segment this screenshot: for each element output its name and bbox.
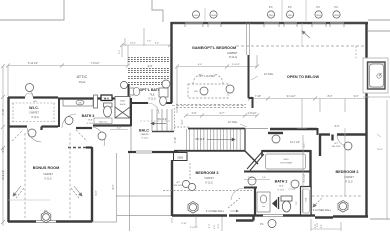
- main stair arrow: [207, 138, 235, 141]
- balc south wall: [128, 151, 178, 153]
- window label circle P.C. 2850: [333, 6, 340, 18]
- attic text: [77, 75, 88, 84]
- door label box 2668: [174, 153, 188, 161]
- bath3 text: [82, 114, 95, 125]
- svg-text:9' CLG: 9' CLG: [278, 190, 285, 192]
- windows in top wall: [185, 22, 344, 24]
- svg-text:5'-2": 5'-2": [2, 147, 5, 152]
- svg-text:5'-0": 5'-0": [317, 223, 319, 228]
- svg-text:3'-0 1/2": 3'-0 1/2": [190, 227, 198, 229]
- shower door diagonal: [247, 152, 264, 171]
- svg-text:9'-7": 9'-7": [220, 112, 225, 115]
- left vertical dimension line: [1, 64, 5, 226]
- svg-text:5'-10 1/2": 5'-10 1/2": [28, 62, 38, 65]
- bonus corner slope dashes: [12, 130, 87, 141]
- balc dashed line: [140, 120, 172, 122]
- svg-text:BEDROOM 3: BEDROOM 3: [196, 171, 219, 175]
- bedroom3 fan hexagon: [188, 202, 198, 214]
- bedroom3 text: [196, 171, 219, 185]
- svg-text:DBL DRS: DBL DRS: [332, 146, 341, 148]
- svg-text:BONUS ROOM: BONUS ROOM: [33, 166, 60, 170]
- bath3 door circle: [65, 117, 73, 125]
- balc west light line: [130, 126, 132, 151]
- svg-text:15'-8 1/2": 15'-8 1/2": [2, 170, 5, 180]
- bedroom2 dashed ceiling: [312, 195, 362, 197]
- right exterior wall: [365, 23, 367, 216]
- svg-text:DN 14 R: DN 14 R: [158, 119, 167, 121]
- svg-text:9'-0": 9'-0": [354, 95, 359, 98]
- svg-text:3'-6": 3'-6": [262, 177, 266, 179]
- svg-text:6040: 6040: [194, 15, 200, 17]
- svg-text:16'-0": 16'-0": [377, 149, 383, 151]
- svg-text:2'-10": 2'-10": [174, 137, 177, 143]
- svg-text:2668: 2668: [177, 156, 183, 160]
- game room text: [192, 46, 238, 59]
- bonus interior light line: [8, 199, 50, 201]
- svg-text:1'-6": 1'-6": [214, 225, 216, 230]
- svg-text:3'-10": 3'-10": [181, 223, 187, 225]
- svg-text:SHLF: SHLF: [120, 104, 126, 106]
- arrow in open area: [302, 31, 310, 38]
- svg-text:OPEN TO BELOW: OPEN TO BELOW: [287, 75, 320, 79]
- bath3 door arc: [62, 114, 76, 128]
- balc window: [136, 151, 152, 153]
- svg-text:7'-6": 7'-6": [147, 41, 152, 43]
- svg-text:P.C.: P.C.: [288, 6, 293, 9]
- bath3 toilet: [104, 103, 113, 117]
- svg-text:TILE: TILE: [279, 186, 284, 188]
- opt'l closet dashed: [176, 74, 246, 108]
- opt'l bath fixture circle: [120, 81, 127, 88]
- bottom dimension rows: [172, 216, 311, 231]
- bonus dashed ceiling lines: [25, 133, 70, 218]
- svg-text:9' CLG: 9' CLG: [31, 116, 39, 119]
- dashed ceiling break line: [236, 45, 366, 47]
- right dashed: [355, 46, 357, 60]
- opt'l bath door circle: [162, 80, 170, 88]
- svg-text:P.C.: P.C.: [260, 223, 265, 226]
- wic south door circle: [28, 129, 36, 137]
- bedroom3 closet dashed: [163, 163, 252, 191]
- wic west wall / bonus west wall: [7, 97, 9, 222]
- svg-text:2'-2": 2'-2": [119, 50, 121, 55]
- bath2 text: [275, 180, 288, 192]
- window label circle P.C. 2850: [267, 6, 274, 18]
- bath2 north wall: [268, 129, 317, 133]
- shower corner vline: [261, 150, 263, 156]
- stair right end: [244, 129, 246, 151]
- svg-text:6050: 6050: [120, 101, 126, 103]
- hall dashed wall: [68, 147, 92, 149]
- svg-text:TILE: TILE: [88, 120, 93, 122]
- attic hatch bands: [128, 58, 171, 85]
- svg-text:ATTIC: ATTIC: [77, 75, 88, 79]
- top wall thin continuous line: [171, 22, 368, 24]
- bedroom3 west wall: [171, 160, 173, 216]
- svg-text:DBL DRS: DBL DRS: [174, 185, 183, 187]
- bath2 bottom window circle: [260, 220, 276, 228]
- svg-text:4'-4": 4'-4": [148, 65, 153, 68]
- svg-text:9' CLG: 9' CLG: [229, 55, 237, 59]
- svg-text:9' CLG: 9' CLG: [87, 123, 94, 125]
- svg-text:2'-8 1/2": 2'-8 1/2": [248, 112, 257, 115]
- svg-text:CARPET: CARPET: [227, 51, 238, 55]
- window label circle P.C. 2850: [315, 6, 322, 18]
- bedroom3 bottom wall: [172, 216, 311, 221]
- svg-text:3'-2": 3'-2": [181, 119, 184, 124]
- svg-text:1040 CO: 1040 CO: [99, 121, 108, 123]
- svg-text:W.I.C.: W.I.C.: [29, 106, 39, 110]
- bedroom2 dim lines: [303, 135, 345, 213]
- svg-text:TILE: TILE: [149, 94, 154, 97]
- window label circle P.C. 2850: [286, 6, 293, 18]
- opt'l bath toilet: [130, 87, 140, 95]
- svg-text:9' CLG: 9' CLG: [44, 178, 52, 181]
- svg-text:OPT'L CLOSET: OPT'L CLOSET: [199, 75, 216, 78]
- bedroom3 closet circles: [182, 180, 189, 187]
- bath3 1040 CO box: [94, 118, 112, 124]
- dimension row stairs: [184, 114, 259, 118]
- bedroom3 slope arrow: [228, 198, 240, 208]
- bath3 south wall: [76, 126, 131, 129]
- svg-text:BALC: BALC: [139, 129, 149, 133]
- game room west wall: [170, 22, 172, 103]
- svg-text:P.C.: P.C.: [316, 6, 321, 9]
- svg-text:6'-0": 6'-0": [117, 128, 122, 130]
- svg-text:3'-2": 3'-2": [296, 201, 298, 205]
- svg-text:BATH 3: BATH 3: [82, 114, 95, 118]
- svg-text:2850: 2850: [288, 15, 294, 17]
- svg-text:1'-10": 1'-10": [247, 177, 252, 179]
- bonus room right wall: [91, 147, 93, 222]
- svg-text:4'-1 1/2": 4'-1 1/2": [303, 173, 306, 182]
- svg-text:2850: 2850: [334, 15, 340, 17]
- master tub right side: [363, 58, 388, 93]
- wic/bath3 divider wall: [58, 98, 60, 127]
- bonus slope arrow left: [13, 186, 24, 198]
- opt'l bath text: [139, 88, 160, 101]
- bath3 east wall: [130, 98, 132, 126]
- svg-text:BATH 2: BATH 2: [275, 180, 288, 184]
- wic shelf dashed: [12, 103, 55, 122]
- opt'l bath west wall: [128, 84, 130, 103]
- light line open to below: [301, 23, 303, 46]
- opt closet circle 2: [226, 85, 234, 93]
- svg-text:7'-10": 7'-10": [2, 109, 5, 115]
- svg-text:Plywd: Plywd: [79, 81, 86, 84]
- svg-text:CARPET: CARPET: [29, 112, 39, 115]
- svg-text:BEDROOM 2: BEDROOM 2: [336, 170, 359, 174]
- upper flight bottom edge: [152, 131, 174, 133]
- bonus bottom window: [36, 221, 56, 223]
- shower interior: [266, 154, 306, 169]
- svg-text:6050: 6050: [284, 159, 290, 161]
- stair right dashed: [174, 108, 176, 131]
- wic top door circle: [26, 84, 34, 92]
- svg-text:9'-1 1/2": 9'-1 1/2": [287, 95, 296, 98]
- wic text: [29, 106, 39, 119]
- shower top wall: [262, 150, 311, 152]
- stair bottom rail: [174, 150, 245, 152]
- bath2 door circles: [248, 177, 256, 185]
- bedroom2 bottom wall: [311, 216, 368, 218]
- stair diagonal below: [245, 151, 258, 164]
- rail corner: [249, 98, 253, 108]
- bedroom2 closet light line: [297, 127, 307, 129]
- svg-text:TILE SHWR: TILE SHWR: [280, 163, 292, 165]
- svg-text:CARPET: CARPET: [344, 176, 354, 179]
- stair rail dark: [248, 55, 250, 98]
- bedroom2 slope arrow: [313, 198, 322, 207]
- upper flight arrow: [151, 122, 166, 125]
- bath2 door arc: [231, 188, 244, 200]
- landing dashed top: [174, 126, 190, 128]
- svg-text:W.H.: W.H.: [104, 96, 110, 100]
- svg-text:3'-0": 3'-0": [218, 224, 220, 229]
- svg-text:42" RAIL: 42" RAIL: [228, 121, 238, 124]
- bedroom2 north wall: [319, 135, 367, 157]
- dimension row open-to-below: [248, 97, 369, 129]
- svg-text:3'-1": 3'-1": [321, 224, 323, 229]
- bonus door circle: [98, 132, 106, 140]
- bath2 west wall: [254, 188, 256, 215]
- svg-text:2'-7 1/2": 2'-7 1/2": [288, 189, 296, 191]
- opt'l bath door arc: [148, 103, 159, 114]
- balc header dashed: [172, 105, 244, 107]
- dimension line game room: [175, 55, 259, 113]
- bath3 6-0 dim: [110, 129, 128, 131]
- svg-text:CARPET: CARPET: [204, 177, 214, 180]
- bath3 W.H. box: [101, 95, 112, 101]
- bedroom2 wall corner: [317, 128, 319, 135]
- svg-text:7'-8 1/2": 7'-8 1/2": [91, 62, 100, 65]
- opt'l bath south wall: [128, 102, 172, 104]
- bath2 lav: [257, 192, 270, 212]
- shower bottom wall: [244, 171, 311, 173]
- svg-text:2'-8 1/2": 2'-8 1/2": [232, 64, 240, 66]
- svg-text:9'-0 KNEE WALL: 9'-0 KNEE WALL: [206, 210, 225, 213]
- bath3 shelf box 6050: [115, 97, 130, 119]
- bath2 window circle: [272, 135, 280, 143]
- shower right wall: [309, 150, 311, 215]
- svg-text:8'-0": 8'-0": [328, 95, 333, 98]
- svg-text:9'-0": 9'-0": [155, 43, 160, 45]
- svg-text:2850: 2850: [269, 15, 275, 17]
- stair rail upper vertical light double: [247, 23, 250, 55]
- window label circle 6040: [210, 11, 217, 18]
- svg-text:2'-1": 2'-1": [303, 142, 306, 147]
- svg-text:Lav: Lav: [262, 206, 265, 208]
- svg-text:CARPET: CARPET: [141, 133, 151, 136]
- bonus room bottom wall: [8, 220, 92, 222]
- svg-text:6'-4": 6'-4": [112, 184, 115, 189]
- svg-text:CARPET: CARPET: [43, 173, 53, 176]
- window edge ticks: [185, 24, 344, 27]
- bedroom2 fan hexagon: [338, 201, 348, 213]
- svg-text:14'-2": 14'-2": [130, 43, 136, 45]
- bonus slope arrow right: [71, 186, 82, 198]
- svg-text:6'-0": 6'-0": [198, 64, 203, 66]
- svg-text:9' CLG: 9' CLG: [148, 98, 156, 101]
- dimension line attic top: [120, 43, 172, 57]
- svg-text:P.C.: P.C.: [269, 6, 274, 9]
- upper stair flight treads: [152, 109, 172, 131]
- bath3 lav counter: [63, 100, 93, 107]
- svg-text:5'-4": 5'-4": [95, 190, 98, 195]
- window separator lines top: [205, 0, 306, 21]
- stair top rail: [188, 128, 245, 130]
- window label circle 6040: [192, 11, 199, 18]
- tub bottom light lines: [363, 96, 390, 98]
- svg-text:9' CLG: 9' CLG: [345, 181, 353, 184]
- wic south door arc: [28, 128, 42, 142]
- svg-text:9' CLG: 9' CLG: [142, 138, 149, 140]
- bedroom2 door arc: [337, 135, 348, 146]
- svg-text:2850: 2850: [316, 15, 322, 17]
- main stair flight: [187, 129, 241, 150]
- svg-text:10'-1 1/2": 10'-1 1/2": [290, 141, 300, 144]
- svg-text:6040: 6040: [211, 15, 217, 17]
- bath2 bottom window: [263, 215, 283, 217]
- bath2 tub: [301, 187, 312, 216]
- opt'l bath SE fixtures: [159, 88, 168, 105]
- bonus room text: [33, 166, 60, 181]
- balc west area light lines: [92, 153, 172, 231]
- right vertical dimension line: [386, 100, 388, 219]
- wic top door arc: [25, 89, 33, 97]
- balc text: [139, 129, 150, 140]
- svg-text:9' CLG: 9' CLG: [205, 182, 213, 185]
- svg-text:7'-10": 7'-10": [255, 95, 261, 98]
- opt closet circle: [200, 87, 208, 95]
- dimension line top-left horizontal: [6, 45, 130, 96]
- bedroom2 door circle: [344, 142, 352, 150]
- svg-text:5'-6": 5'-6": [315, 224, 317, 229]
- svg-text:42" RAIL: 42" RAIL: [264, 73, 274, 76]
- wic/bath3 top wall: [8, 98, 128, 99]
- bath2 door symbol: [272, 197, 279, 209]
- bonus door arc: [93, 127, 105, 146]
- svg-text:DN 14 R: DN 14 R: [196, 139, 205, 141]
- svg-text:8'-6": 8'-6": [335, 125, 340, 128]
- svg-text:OPT'L BATH: OPT'L BATH: [139, 88, 160, 92]
- svg-text:TUB: TUB: [306, 197, 308, 202]
- svg-text:P.C.: P.C.: [334, 6, 339, 9]
- wic south wall: [8, 127, 58, 131]
- svg-text:2'-3": 2'-3": [209, 224, 211, 229]
- top exterior wall: [171, 22, 368, 24]
- bedroom2 text: [336, 170, 359, 184]
- bath3 counter jamb: [94, 95, 98, 108]
- bonus PC fan: [41, 210, 51, 223]
- svg-text:GAME/OPT'L BEDROOM: GAME/OPT'L BEDROOM: [192, 46, 236, 50]
- svg-text:9'-0 KNEE WALL: 9'-0 KNEE WALL: [313, 209, 332, 212]
- bath2 toilet: [281, 196, 292, 212]
- svg-text:2'-6": 2'-6": [192, 112, 197, 115]
